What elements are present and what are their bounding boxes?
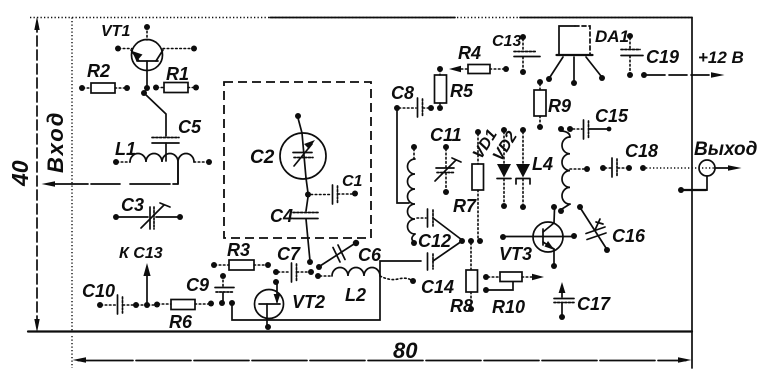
capacitor C18 bbox=[600, 158, 632, 177]
svg-text:R10: R10 bbox=[492, 297, 525, 317]
capacitor C15 bbox=[567, 120, 611, 139]
svg-text:C12: C12 bbox=[418, 231, 451, 251]
wire C2 to C1 C4 junction bbox=[305, 178, 311, 198]
resistor R1 bbox=[153, 83, 199, 93]
capacitor C19 bbox=[621, 33, 643, 78]
diode VD2 bbox=[516, 127, 530, 210]
svg-text:Вход: Вход bbox=[43, 111, 68, 173]
svg-text:R4: R4 bbox=[458, 43, 481, 63]
capacitor C12 bbox=[417, 209, 462, 240]
capacitor C7 bbox=[273, 263, 314, 282]
capacitor C14 bbox=[428, 241, 463, 270]
svg-text:Выход: Выход bbox=[694, 139, 758, 160]
svg-text:C1: C1 bbox=[342, 173, 363, 190]
capacitor C8 bbox=[394, 98, 434, 117]
svg-text:DA1: DA1 bbox=[595, 27, 629, 46]
dimension 40 bbox=[34, 17, 39, 333]
svg-text:L2: L2 bbox=[345, 285, 366, 305]
svg-text:C11: C11 bbox=[430, 125, 462, 145]
svg-text:C5: C5 bbox=[178, 117, 202, 137]
svg-text:VT3: VT3 bbox=[499, 244, 532, 264]
svg-text:R9: R9 bbox=[548, 96, 571, 116]
svg-text:C2: C2 bbox=[250, 147, 275, 168]
svg-text:40: 40 bbox=[7, 160, 33, 187]
inductor L4 bbox=[558, 126, 590, 214]
resistor R7 bbox=[472, 129, 484, 244]
svg-text:C8: C8 bbox=[391, 83, 414, 103]
resistor R8 bbox=[466, 238, 478, 312]
svg-text:L4: L4 bbox=[532, 154, 553, 174]
inductor L2 bbox=[315, 268, 416, 285]
diode VD1 bbox=[497, 127, 511, 209]
svg-text:C7: C7 bbox=[277, 244, 301, 264]
trimmer capacitor C3 bbox=[113, 203, 183, 229]
wire +12V rail bbox=[641, 72, 725, 78]
resistor R9 bbox=[534, 79, 546, 130]
inductor L1 bbox=[113, 154, 212, 184]
capacitor C5 bbox=[152, 138, 179, 162]
inductor L3 bbox=[408, 144, 417, 246]
node C12 C14 junction bbox=[459, 238, 465, 244]
resistor R4 bbox=[449, 65, 509, 74]
svg-text:К C13: К C13 bbox=[119, 245, 163, 262]
svg-text:VT2: VT2 bbox=[292, 292, 325, 312]
capacitor C4 bbox=[293, 197, 318, 261]
svg-text:R2: R2 bbox=[87, 61, 110, 81]
capacitor C10 bbox=[97, 295, 139, 314]
svg-text:C3: C3 bbox=[121, 195, 144, 215]
svg-text:C15: C15 bbox=[595, 106, 629, 126]
capacitor C1 bbox=[311, 185, 358, 204]
svg-text:R7: R7 bbox=[453, 196, 477, 216]
variable capacitor C2 bbox=[280, 113, 326, 179]
dashed enclosure box bbox=[224, 82, 371, 238]
resistor R10 bbox=[483, 272, 544, 293]
transistor VT1 bbox=[115, 24, 197, 91]
resistor R5 bbox=[435, 66, 447, 111]
svg-text:R8: R8 bbox=[450, 296, 473, 316]
capacitor C13 bbox=[514, 34, 540, 75]
svg-text:C17: C17 bbox=[577, 294, 611, 314]
wire VT1 base to C5 bbox=[141, 90, 166, 136]
svg-text:L1: L1 bbox=[115, 139, 136, 159]
capacitor C9 bbox=[215, 273, 234, 306]
svg-text:C18: C18 bbox=[625, 141, 658, 161]
wire C8 to L3 bbox=[397, 110, 409, 203]
wire input net bbox=[42, 162, 179, 187]
trimmer capacitor C6 bbox=[316, 240, 359, 270]
resistor R2 bbox=[79, 83, 130, 93]
node J1 bbox=[307, 259, 313, 265]
svg-text:80: 80 bbox=[393, 338, 418, 363]
svg-text:C13: C13 bbox=[492, 33, 521, 50]
transistor VT2 bbox=[255, 279, 284, 330]
svg-text:R3: R3 bbox=[227, 240, 250, 260]
dimension 80 bbox=[72, 336, 692, 368]
svg-text:+12 В: +12 В bbox=[698, 48, 744, 67]
trimmer capacitor C16 bbox=[577, 204, 610, 253]
resistor R3 bbox=[211, 260, 271, 270]
resistor R6 bbox=[137, 300, 214, 310]
wire VT2 ground run bbox=[229, 261, 421, 320]
svg-text:C4: C4 bbox=[270, 206, 293, 226]
transistor VT3 bbox=[500, 204, 577, 269]
capacitor C17 bbox=[554, 282, 574, 320]
svg-text:R6: R6 bbox=[169, 312, 193, 332]
output connector bbox=[640, 160, 742, 193]
svg-text:VT1: VT1 bbox=[101, 23, 130, 40]
svg-text:C10: C10 bbox=[82, 281, 115, 301]
svg-text:C19: C19 bbox=[646, 47, 679, 67]
svg-text:C6: C6 bbox=[358, 245, 382, 265]
svg-text:R1: R1 bbox=[166, 64, 189, 84]
integrated circuit DA1 bbox=[546, 26, 605, 86]
svg-text:R5: R5 bbox=[450, 81, 474, 101]
svg-text:C16: C16 bbox=[612, 226, 646, 246]
node K C13 arrow bbox=[143, 263, 150, 308]
board outline bbox=[28, 18, 692, 369]
trimmer capacitor C11 bbox=[435, 144, 461, 195]
svg-text:C9: C9 bbox=[186, 275, 209, 295]
svg-text:C14: C14 bbox=[421, 277, 454, 297]
